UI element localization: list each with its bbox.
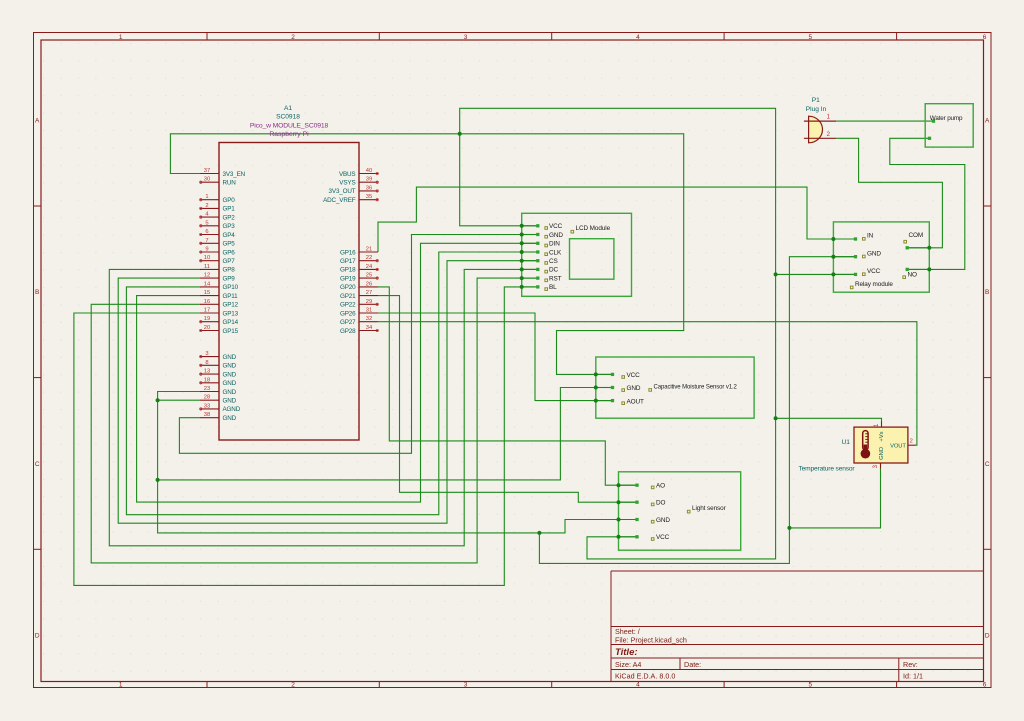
svg-text:VCC: VCC: [627, 372, 641, 379]
moisture sensor pin VCC: [594, 372, 640, 379]
svg-text:14: 14: [204, 281, 211, 287]
svg-text:25: 25: [366, 273, 372, 279]
svg-text:GND: GND: [223, 389, 237, 396]
svg-text:RUN: RUN: [223, 180, 237, 187]
svg-text:9: 9: [205, 247, 208, 253]
Capacitive Moisture Sensor box: [596, 357, 754, 418]
svg-text:Rev:: Rev:: [903, 660, 918, 669]
svg-text:Light sensor: Light sensor: [692, 505, 727, 512]
wire net GP12 to LCD RST: [91, 278, 537, 563]
svg-text:GND: GND: [223, 354, 237, 361]
svg-text:3: 3: [464, 681, 468, 688]
pin 13 GND (left): [200, 369, 237, 379]
svg-text:24: 24: [366, 264, 373, 270]
pin 22 GP17 (right): [340, 255, 378, 265]
svg-text:GND: GND: [223, 371, 237, 378]
svg-text:3: 3: [205, 351, 208, 357]
pin 15 GP11 (left): [200, 290, 238, 300]
svg-text:GP20: GP20: [340, 284, 356, 291]
svg-text:6: 6: [983, 681, 987, 688]
LCD Module screen inner rect: [570, 239, 614, 280]
LCD pin DC: [520, 267, 559, 274]
svg-text:GP9: GP9: [223, 275, 236, 282]
svg-text:VOUT: VOUT: [890, 443, 906, 449]
Capacitive Moisture Sensor label: [649, 384, 738, 391]
svg-text:DIN: DIN: [549, 241, 560, 248]
svg-text:19: 19: [204, 316, 210, 322]
svg-text:Id: 1/1: Id: 1/1: [903, 672, 923, 681]
svg-text:AOUT: AOUT: [627, 398, 645, 405]
svg-text:GP18: GP18: [340, 267, 356, 274]
LCD Module label: [571, 225, 611, 233]
wire net GP21 to light sensor DO: [378, 296, 637, 503]
svg-text:27: 27: [366, 290, 372, 296]
svg-text:2: 2: [205, 203, 208, 209]
wire net GP9 to LCD CS: [118, 261, 537, 524]
svg-text:NO: NO: [908, 272, 918, 279]
junction GND28: [156, 398, 160, 402]
water pump pin 2: [928, 137, 931, 140]
pin 2 GP1 (left): [200, 203, 236, 213]
U1 pin 3 GND bottom: [873, 447, 885, 469]
LCD pin DIN: [520, 241, 560, 248]
relay pin NO: [903, 267, 931, 278]
svg-text:17: 17: [204, 308, 210, 314]
svg-text:GP15: GP15: [223, 328, 239, 335]
svg-text:Plug In: Plug In: [806, 106, 827, 113]
wire net GP27 to temp sensor VOUT: [378, 322, 917, 446]
pin 19 GP14 (left): [200, 316, 239, 326]
svg-text:Relay module: Relay module: [855, 281, 893, 288]
pin 23 GND (left): [200, 386, 237, 396]
pin 27 GP21 (right): [340, 290, 378, 300]
svg-text:GP16: GP16: [340, 249, 356, 256]
svg-text:6: 6: [205, 229, 208, 235]
svg-text:GP17: GP17: [340, 258, 356, 265]
svg-text:+Vs: +Vs: [879, 431, 885, 441]
svg-text:AGND: AGND: [223, 406, 241, 413]
pin 24 GP18 (right): [340, 264, 378, 274]
svg-text:28: 28: [204, 395, 210, 401]
svg-text:ADC_VREF: ADC_VREF: [323, 197, 356, 204]
LCD pin RST: [520, 275, 562, 282]
svg-text:C: C: [985, 461, 990, 468]
light sensor pin VCC: [617, 534, 670, 541]
svg-text:GP5: GP5: [223, 241, 236, 248]
svg-text:5: 5: [808, 681, 812, 688]
Light sensor label: [687, 505, 726, 513]
pin 33 AGND (left): [200, 403, 241, 413]
svg-text:U1: U1: [841, 439, 850, 446]
LCD pin CLK: [520, 249, 562, 256]
wire net GND: pico GND pins to light GND, moisture GND, relay GND, temp GND: [158, 257, 881, 564]
svg-text:GP2: GP2: [223, 214, 236, 221]
svg-text:COM: COM: [909, 232, 924, 239]
Raspberry Pi Pico module A1 body: [219, 143, 359, 441]
svg-text:GND: GND: [867, 250, 881, 257]
pin 29 GP22 (right): [340, 299, 378, 309]
relay pin GND: [831, 250, 881, 258]
pin 18 GND (left): [200, 377, 237, 387]
svg-text:1: 1: [119, 681, 123, 688]
pin 5 GP3 (left): [200, 220, 236, 230]
svg-text:GP13: GP13: [223, 310, 239, 317]
pin 31 GP26 (right): [340, 308, 378, 318]
junction 3V3 at temp sensor: [774, 416, 778, 420]
svg-text:6: 6: [983, 34, 987, 41]
pin 3 GND (left): [200, 351, 237, 361]
Light sensor box: [619, 472, 741, 550]
svg-text:30: 30: [204, 177, 210, 183]
svg-text:GP10: GP10: [223, 284, 239, 291]
LCD pin CS: [520, 258, 558, 265]
svg-text:Size: A4: Size: A4: [615, 660, 641, 669]
svg-text:D: D: [985, 632, 990, 639]
svg-text:CS: CS: [549, 258, 558, 265]
svg-text:5: 5: [808, 34, 812, 41]
svg-text:GND: GND: [879, 447, 885, 460]
svg-text:2: 2: [910, 439, 913, 445]
title block: [611, 571, 984, 682]
svg-text:B: B: [985, 289, 989, 296]
svg-text:A: A: [985, 117, 990, 124]
svg-text:23: 23: [204, 386, 210, 392]
svg-text:Capacitive Moisture Sensor v1.: Capacitive Moisture Sensor v1.2: [654, 384, 738, 390]
svg-text:GP11: GP11: [223, 293, 239, 300]
svg-text:GP12: GP12: [223, 302, 239, 309]
svg-text:20: 20: [204, 325, 210, 331]
svg-text:C: C: [35, 461, 40, 468]
svg-text:5: 5: [205, 220, 208, 226]
pin 34 GP28 (right): [340, 325, 378, 335]
svg-text:GP0: GP0: [223, 197, 236, 204]
relay pin VCC: [831, 268, 880, 276]
pin 20 GP15 (left): [200, 325, 239, 335]
svg-text:7: 7: [205, 238, 208, 244]
pin 26 GP20 (right): [340, 281, 378, 291]
svg-text:GP21: GP21: [340, 293, 356, 300]
wire net GP10 to LCD CLK: [126, 252, 537, 515]
svg-text:8: 8: [205, 360, 208, 366]
pin 28 GND (left): [200, 395, 237, 405]
moisture sensor pin AOUT: [594, 398, 644, 405]
junction 3V3 at LCD VCC branch: [458, 132, 462, 136]
relay pin IN: [831, 233, 873, 241]
junction temp GND on relay GND wire: [787, 526, 791, 530]
svg-text:36: 36: [366, 185, 372, 191]
pin 39 VSYS (right): [339, 177, 378, 187]
svg-text:D: D: [35, 632, 40, 639]
svg-text:SC0918: SC0918: [276, 114, 300, 121]
Water pump box: [925, 104, 973, 147]
svg-text:GND: GND: [223, 363, 237, 370]
svg-text:DO: DO: [656, 500, 666, 507]
svg-text:VSYS: VSYS: [339, 180, 355, 187]
svg-text:22: 22: [366, 255, 372, 261]
svg-text:GND: GND: [223, 398, 237, 405]
svg-text:Raspberry Pi: Raspberry Pi: [269, 131, 309, 138]
wire net GP11 to LCD DIN: [137, 243, 538, 502]
LCD pin GND: [520, 232, 564, 239]
svg-text:3V3_EN: 3V3_EN: [223, 171, 246, 178]
svg-text:GP28: GP28: [340, 328, 356, 335]
svg-text:VCC: VCC: [656, 534, 670, 541]
svg-text:40: 40: [366, 168, 372, 174]
svg-text:VCC: VCC: [867, 268, 881, 275]
svg-text:GND: GND: [549, 232, 563, 239]
svg-text:26: 26: [366, 281, 372, 287]
pin 6 GP4 (left): [200, 229, 236, 239]
wire net GP26 to moisture AOUT: [378, 313, 613, 401]
svg-text:GP7: GP7: [223, 258, 236, 265]
svg-text:LCD Module: LCD Module: [576, 225, 611, 232]
pin 40 VBUS (right): [339, 168, 378, 178]
moisture sensor pin GND: [594, 385, 641, 392]
pin 38 GND (left): [200, 412, 237, 422]
svg-text:GND: GND: [223, 415, 237, 422]
svg-text:3V3_OUT: 3V3_OUT: [329, 188, 356, 195]
svg-text:18: 18: [204, 377, 210, 383]
Relay module label: [850, 281, 893, 289]
svg-text:GP6: GP6: [223, 249, 236, 256]
wire net 3V3 power: 3V3_EN to LCD VCC, relay VCC, temp +Vs, light VCC, moisture VCC: [170, 108, 881, 559]
svg-text:4: 4: [636, 34, 640, 41]
svg-text:1: 1: [119, 34, 123, 41]
light sensor pin DO: [617, 500, 666, 507]
wire net GP13 to LCD BL: [74, 287, 538, 586]
svg-text:12: 12: [204, 273, 210, 279]
svg-text:GP4: GP4: [223, 232, 236, 239]
pin 30 RUN (left): [200, 177, 237, 187]
U1 pin 2 VOUT: [890, 439, 915, 450]
svg-text:IN: IN: [867, 233, 874, 240]
svg-text:File: Project.kicad_sch: File: Project.kicad_sch: [615, 636, 687, 645]
pin 1 GP0 (left): [200, 194, 236, 204]
pin 14 GP10 (left): [200, 281, 239, 291]
svg-text:13: 13: [204, 369, 210, 375]
svg-text:RST: RST: [549, 275, 562, 282]
LCD pin VCC: [520, 223, 563, 230]
svg-text:AO: AO: [656, 483, 665, 490]
svg-text:GP26: GP26: [340, 310, 356, 317]
pin 16 GP12 (left): [200, 299, 239, 309]
frame zone numbers bottom: [119, 681, 987, 688]
pin 10 GP7 (left): [200, 255, 236, 265]
junction GND to moisture: [156, 478, 160, 482]
svg-text:GND: GND: [627, 385, 641, 392]
wire net GP20 to light sensor AO: [378, 287, 637, 485]
pin 8 GND (left): [200, 360, 237, 370]
wire net GND38 to LCD GND: [179, 235, 537, 454]
svg-text:34: 34: [366, 325, 373, 331]
svg-text:A: A: [35, 117, 40, 124]
svg-text:Temperature sensor: Temperature sensor: [799, 466, 856, 473]
U1 pin 1 (+Vs top): [874, 422, 885, 442]
wire net GP16 to relay IN: [378, 187, 854, 252]
light sensor pin AO: [617, 483, 666, 490]
relay pin COM: [904, 232, 931, 250]
U1 thermometer icon: [861, 431, 871, 459]
Relay module box: [833, 222, 929, 292]
svg-text:2: 2: [827, 131, 831, 138]
pin 36 3V3_OUT (right): [329, 185, 379, 195]
svg-text:35: 35: [366, 194, 372, 200]
wire net P1 pin1 to water pump: [836, 120, 933, 122]
svg-text:10: 10: [204, 255, 210, 261]
svg-text:39: 39: [366, 177, 372, 183]
light sensor pin GND: [617, 517, 671, 524]
svg-text:CLK: CLK: [549, 249, 562, 256]
pin 17 GP13 (left): [200, 308, 239, 318]
svg-text:Date:: Date:: [684, 660, 701, 669]
temperature sensor U1 body: [854, 427, 908, 463]
svg-text:GP19: GP19: [340, 275, 356, 282]
wire net GP8 to LCD DC: [109, 269, 537, 545]
svg-text:21: 21: [366, 247, 372, 253]
svg-text:P1: P1: [812, 97, 820, 104]
svg-text:2: 2: [291, 34, 295, 41]
svg-text:GND: GND: [223, 380, 237, 387]
frame zone numbers top: [119, 34, 987, 41]
pin 12 GP9 (left): [200, 273, 235, 283]
svg-text:GND: GND: [656, 517, 670, 524]
svg-text:3: 3: [464, 34, 468, 41]
connector P1 symbol: [804, 116, 836, 143]
svg-text:GP8: GP8: [223, 267, 236, 274]
pin 4 GP2 (left): [200, 212, 236, 222]
svg-text:1: 1: [205, 194, 208, 200]
svg-text:15: 15: [204, 290, 210, 296]
pin 21 GP16 (right): [340, 247, 378, 257]
svg-text:38: 38: [204, 412, 210, 418]
svg-text:37: 37: [204, 168, 210, 174]
frame zone letters right: [985, 117, 990, 639]
svg-text:11: 11: [204, 264, 210, 270]
pin 32 GP27 (right): [340, 316, 378, 326]
pin 9 GP6 (left): [200, 247, 236, 257]
svg-text:GP3: GP3: [223, 223, 236, 230]
svg-text:VBUS: VBUS: [339, 171, 356, 178]
pin 11 GP8 (left): [200, 264, 235, 274]
junction GND to relay branch: [537, 531, 541, 535]
svg-text:4: 4: [636, 681, 640, 688]
junction 3V3 at relay VCC: [774, 272, 778, 276]
svg-text:31: 31: [366, 308, 372, 314]
svg-text:1: 1: [827, 114, 831, 121]
frame zone letters left: [35, 117, 40, 639]
pin 7 GP5 (left): [200, 238, 236, 248]
svg-text:BL: BL: [549, 284, 557, 291]
wire net water pump pin2 to relay NO: [890, 138, 965, 269]
svg-text:B: B: [35, 289, 39, 296]
pin 37 3V3_EN (left): [200, 168, 246, 178]
wire net P1 pin2 to relay COM: [836, 138, 942, 248]
svg-text:2: 2: [291, 681, 295, 688]
LCD Module box: [522, 213, 632, 296]
svg-text:33: 33: [204, 403, 210, 409]
svg-text:Pico_w MODULE_SC0918: Pico_w MODULE_SC0918: [250, 122, 329, 129]
pin 35 ADC_VREF (right): [323, 194, 378, 204]
svg-text:GP27: GP27: [340, 319, 356, 326]
LCD pin BL: [520, 284, 557, 291]
svg-text:KiCad E.D.A. 8.0.0: KiCad E.D.A. 8.0.0: [615, 672, 675, 681]
svg-text:VCC: VCC: [549, 223, 563, 230]
svg-text:A1: A1: [284, 105, 292, 112]
svg-text:Title:: Title:: [615, 647, 638, 658]
pin 25 GP19 (right): [340, 273, 378, 283]
svg-text:GP22: GP22: [340, 302, 356, 309]
water pump pin 1: [932, 119, 935, 122]
svg-text:GP14: GP14: [223, 319, 239, 326]
svg-text:16: 16: [204, 299, 210, 305]
svg-text:GP1: GP1: [223, 206, 236, 213]
svg-text:DC: DC: [549, 267, 559, 274]
svg-text:Water pump: Water pump: [930, 115, 963, 122]
svg-text:29: 29: [366, 299, 372, 305]
svg-text:32: 32: [366, 316, 372, 322]
